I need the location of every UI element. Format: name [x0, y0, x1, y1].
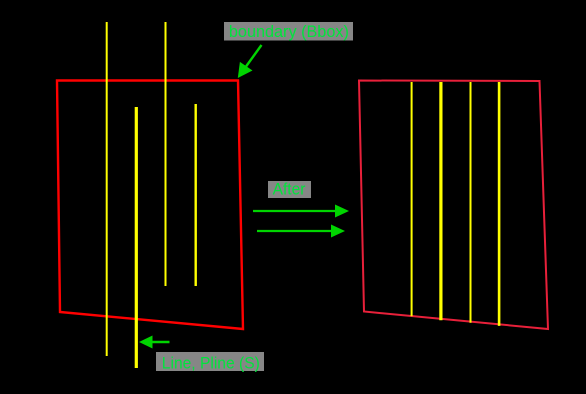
svg-text:boundary (Bbox): boundary (Bbox)	[229, 22, 349, 41]
svg-text:Line, Pline (S): Line, Pline (S)	[162, 353, 260, 372]
svg-text:After: After	[273, 179, 306, 198]
